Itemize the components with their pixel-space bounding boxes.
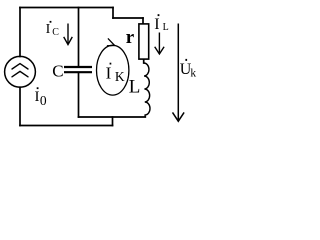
svg-text:I: I: [35, 89, 40, 105]
loop current IK ellipse arrow: [97, 38, 129, 95]
wire top-right horizontal: [113, 17, 143, 19]
svg-text:C: C: [52, 27, 59, 38]
wire bottom rail: [20, 125, 113, 127]
label I_L: [154, 14, 169, 33]
label I_C: [46, 21, 60, 38]
wire riser bottom-right: [112, 117, 114, 126]
svg-text:I: I: [106, 63, 112, 82]
label I_0: [35, 87, 47, 108]
wire top rail: [20, 7, 113, 9]
svg-text:I: I: [46, 22, 51, 37]
wire resistor top lead: [142, 18, 144, 24]
svg-text:C: C: [52, 61, 63, 80]
svg-text:I: I: [154, 16, 159, 33]
svg-text:L: L: [129, 76, 141, 97]
svg-text:0: 0: [40, 93, 47, 108]
svg-text:k: k: [190, 67, 196, 79]
wire inner bottom: [79, 116, 146, 118]
svg-text:L: L: [163, 22, 169, 33]
wire capacitor top lead: [78, 8, 80, 67]
resistor r: [139, 24, 149, 59]
arrow I_L (current into r-L branch): [155, 33, 164, 55]
wire resistor-inductor stub: [143, 60, 145, 63]
svg-text:r: r: [126, 27, 135, 48]
arrow I_C (current into capacitor): [64, 24, 73, 45]
svg-text:K: K: [115, 69, 125, 84]
arrow U_k (voltage arrow): [173, 24, 185, 122]
capacitor C plates: [64, 67, 92, 72]
current source I0: [5, 56, 36, 87]
inductor L coil: [144, 63, 150, 117]
wire capacitor bottom lead: [78, 73, 80, 117]
wire top-right jog down: [112, 8, 114, 19]
wire left lower: [19, 87, 21, 125]
wire left upper: [19, 8, 21, 57]
label I_K: [106, 63, 125, 84]
label U_k: [180, 59, 197, 80]
